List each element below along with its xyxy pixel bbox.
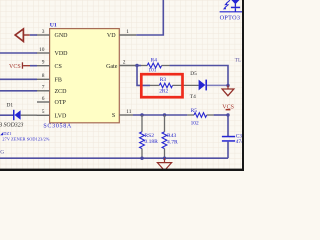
resistor R43 <box>164 115 166 132</box>
svg-text:CS: CS <box>55 64 62 70</box>
svg-text:11: 11 <box>126 109 131 115</box>
pin 11 <box>119 114 133 116</box>
svg-text:VD: VD <box>107 33 116 39</box>
wire pin 10 <box>0 52 37 54</box>
node junction RS2 bottom <box>140 157 143 160</box>
pin 8 <box>37 78 50 80</box>
svg-text:VCS: VCS <box>9 64 21 70</box>
svg-text:0.18R: 0.18R <box>144 139 158 145</box>
wire pin 7 <box>0 90 37 92</box>
svg-text:B SOD323: B SOD323 <box>0 122 24 128</box>
sheet border bottom <box>0 169 244 171</box>
svg-text:ZCD: ZCD <box>55 89 68 95</box>
pin 6 <box>37 101 50 103</box>
svg-text:R3: R3 <box>160 77 167 83</box>
svg-text:10: 10 <box>39 47 45 53</box>
node junction R43 bottom <box>163 157 166 160</box>
pin 1 <box>119 34 136 36</box>
svg-text:GND: GND <box>55 33 69 39</box>
pin 3 <box>37 34 50 36</box>
wire gate node down to R3 <box>137 66 150 86</box>
wire R5 to cap node <box>214 114 228 116</box>
svg-text:R4: R4 <box>151 58 158 64</box>
svg-text:OPTO3: OPTO3 <box>220 14 241 21</box>
svg-text:G: G <box>0 150 4 156</box>
svg-text:3: 3 <box>42 29 45 35</box>
svg-text:T4: T4 <box>190 94 196 100</box>
power port VCS (down arrow) <box>227 85 229 89</box>
svg-text:6: 6 <box>42 96 45 102</box>
D1 lead to pin 5 <box>21 114 37 116</box>
svg-text:FB: FB <box>55 78 62 84</box>
svg-text:7: 7 <box>42 85 45 91</box>
pin 10 <box>37 52 50 54</box>
svg-text:DZ1: DZ1 <box>3 131 11 136</box>
svg-text:1: 1 <box>126 29 129 35</box>
svg-text:2R2: 2R2 <box>159 88 168 94</box>
svg-text:VDD: VDD <box>55 51 69 57</box>
svg-text:101: 101 <box>148 67 156 73</box>
svg-text:Gate: Gate <box>106 64 118 70</box>
port arrow (GND sheet entry) <box>15 29 23 42</box>
sheet border right <box>242 0 244 171</box>
optocoupler OPTO3 LED <box>231 0 240 4</box>
wire port to pin 3 <box>23 34 29 36</box>
svg-text:9: 9 <box>42 60 45 66</box>
node junction RS2 <box>140 113 143 116</box>
diode D5 (anode left) <box>199 80 206 91</box>
svg-text:27V ZENER SOD123/2%: 27V ZENER SOD123/2% <box>2 137 49 142</box>
svg-text:8: 8 <box>42 73 45 79</box>
wire pin 8 <box>0 78 37 80</box>
LED arrows <box>226 0 230 3</box>
svg-text:S: S <box>112 113 115 119</box>
resistor RS2 <box>141 115 143 132</box>
capacitor C <box>227 115 229 136</box>
svg-text:102: 102 <box>191 121 199 127</box>
wire D5 to node <box>207 84 229 86</box>
wire pin1 VD up <box>136 0 163 35</box>
wire R4 to corner <box>170 66 229 86</box>
node junction D5/R4 <box>226 84 229 87</box>
node junction R43 <box>163 113 166 116</box>
svg-text:R5: R5 <box>191 108 198 114</box>
svg-text:D1: D1 <box>7 103 14 109</box>
DZ1 text <box>0 132 3 135</box>
opto underline <box>220 11 242 13</box>
svg-text:R43: R43 <box>167 133 177 139</box>
svg-text:2: 2 <box>123 60 126 66</box>
svg-text:LVD: LVD <box>55 114 67 120</box>
pin 7 <box>37 90 50 92</box>
wire gate node to R4 <box>136 65 141 67</box>
pin 9 <box>37 65 50 67</box>
highlight box around R3 <box>141 74 182 97</box>
svg-text:TL: TL <box>235 58 241 64</box>
IC U1 body <box>50 29 120 123</box>
wire pin 11 row <box>133 114 187 116</box>
svg-text:SC3058A: SC3058A <box>43 123 72 129</box>
pin 2 <box>119 65 136 67</box>
svg-text:D5: D5 <box>190 71 197 77</box>
wire to pin 9 <box>30 65 37 67</box>
svg-text:4.7R: 4.7R <box>167 139 178 145</box>
bottom wire <box>0 157 228 159</box>
node junction at gate <box>135 64 138 67</box>
svg-text:U1: U1 <box>50 22 57 28</box>
diode D1 (zener, cathode left) <box>13 110 15 120</box>
ground symbol <box>164 158 166 162</box>
wire to D1 <box>0 114 13 116</box>
pin 5 <box>37 114 50 116</box>
svg-text:5: 5 <box>42 109 45 115</box>
svg-text:OTP: OTP <box>55 100 67 106</box>
node junction cap <box>226 113 229 116</box>
